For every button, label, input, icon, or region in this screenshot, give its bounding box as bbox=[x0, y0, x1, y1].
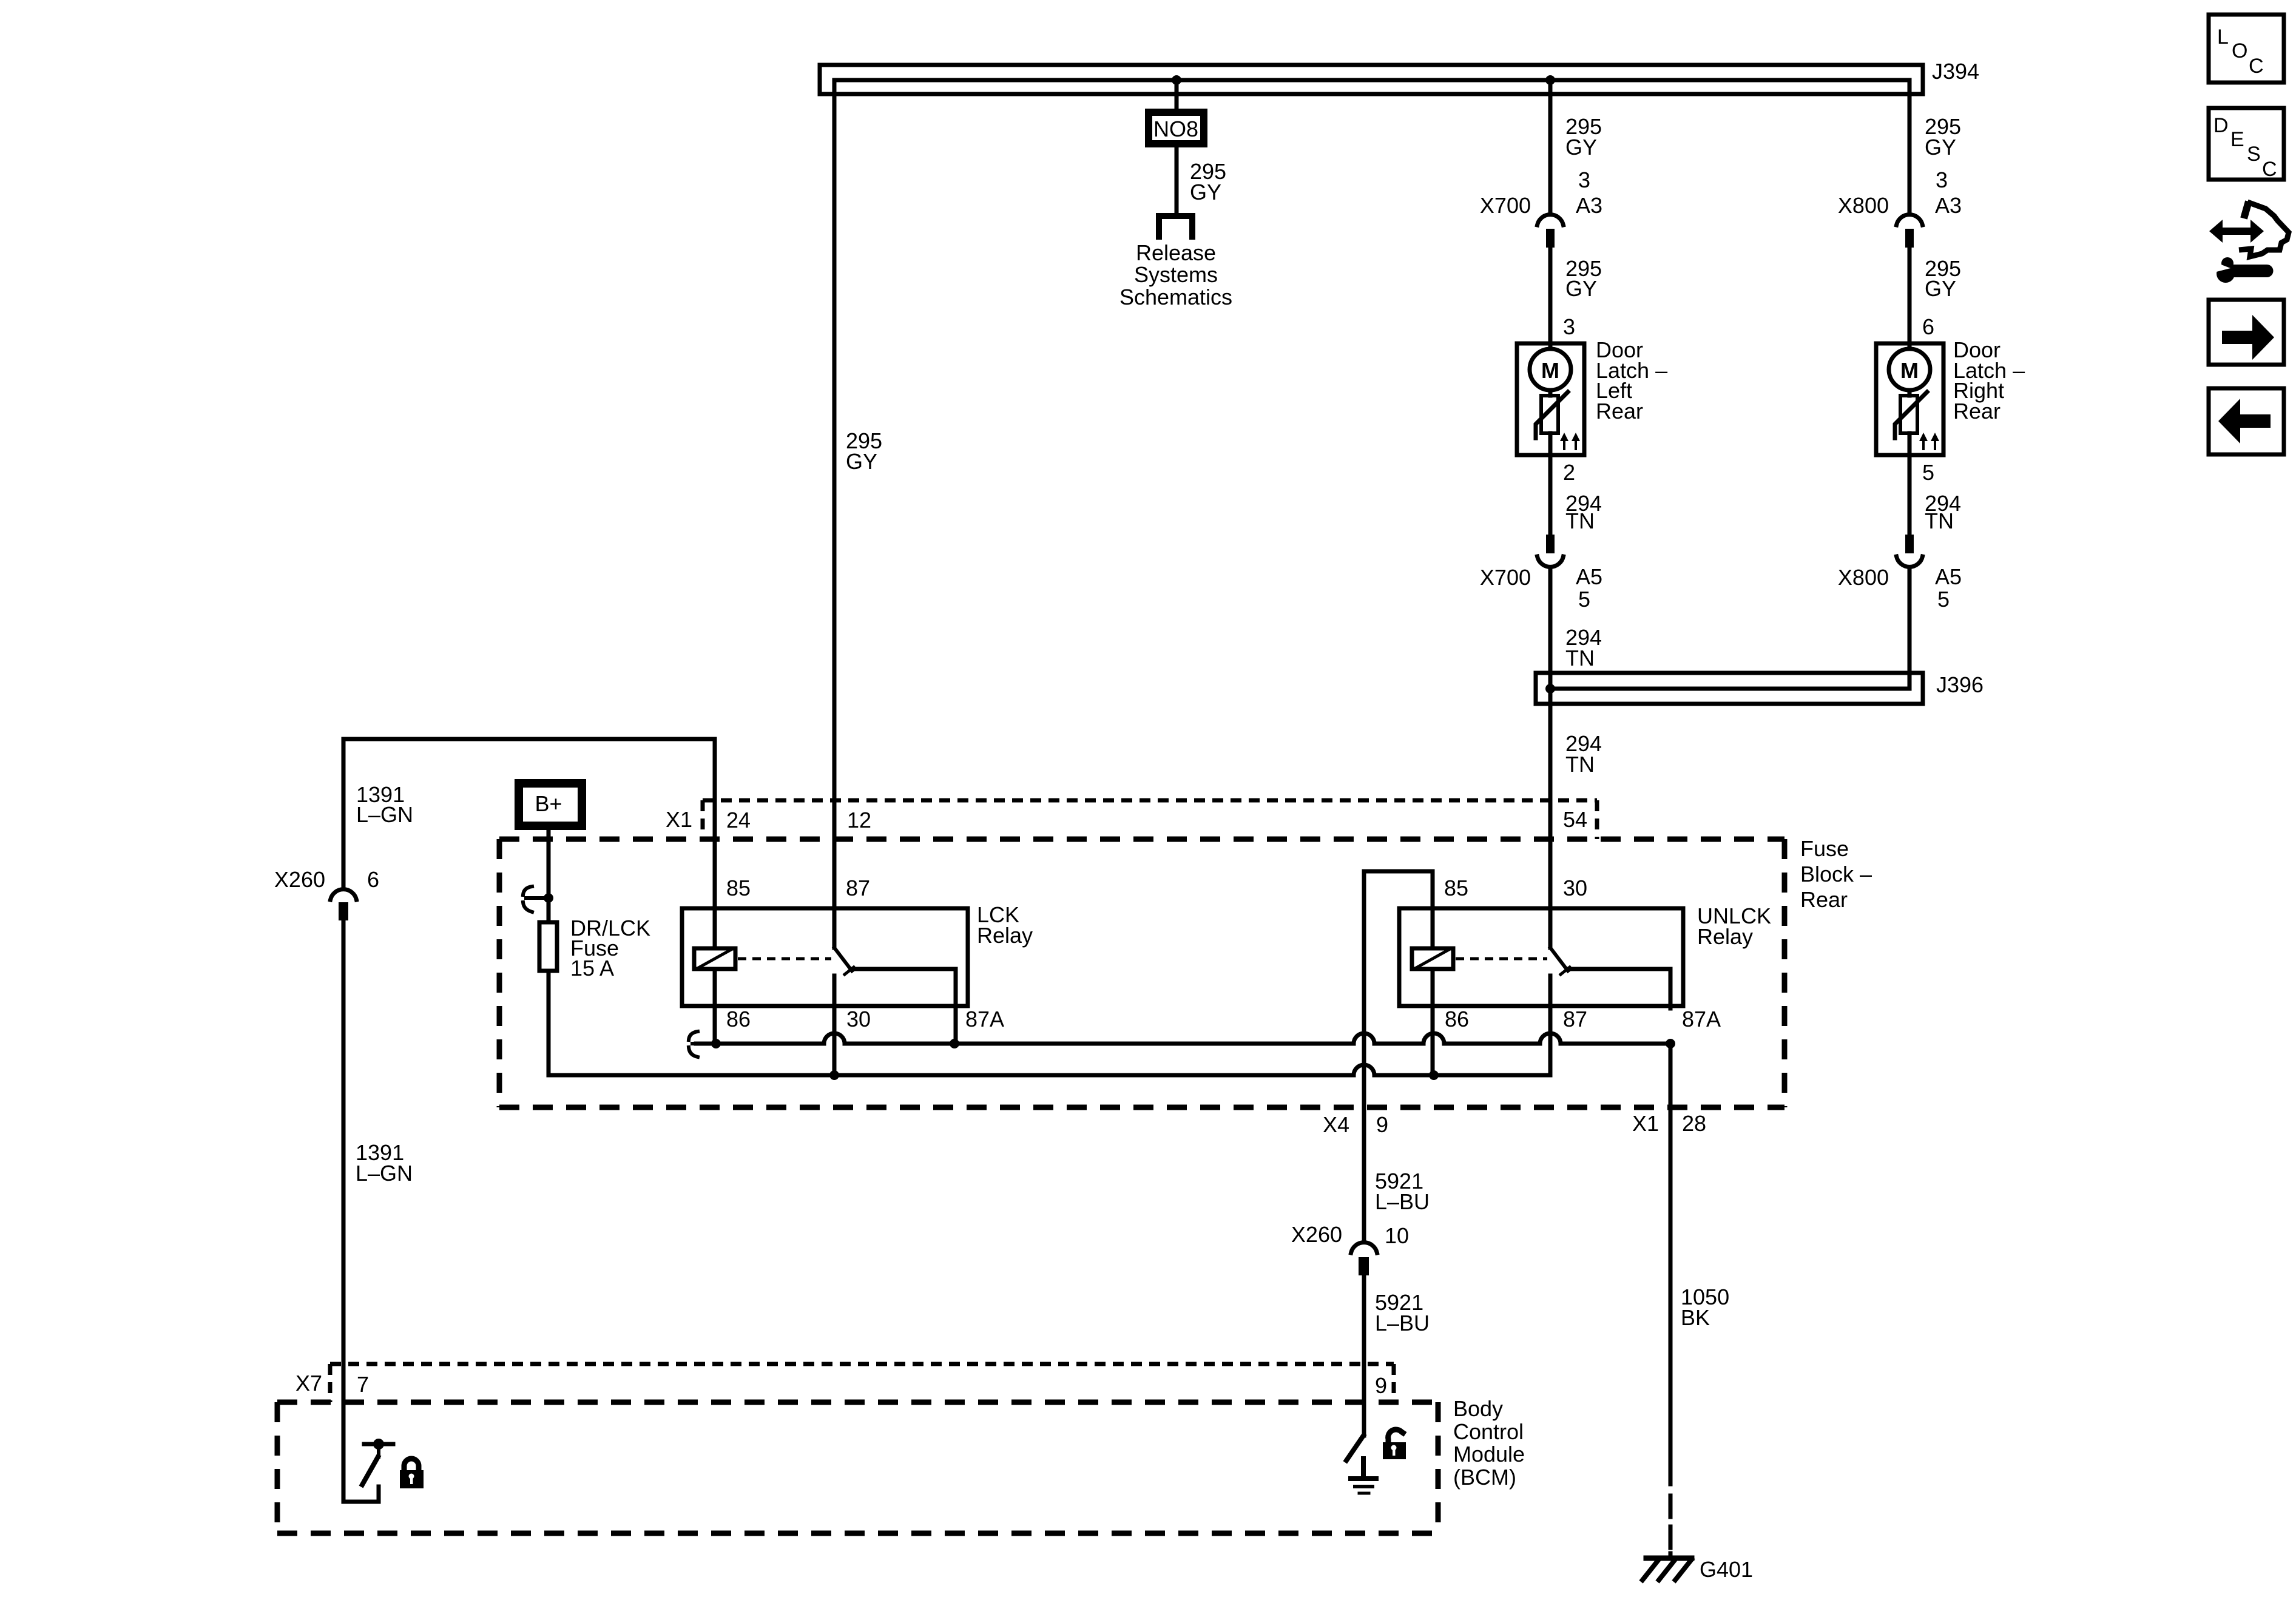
svg-text:NO8: NO8 bbox=[1153, 116, 1198, 141]
relay coil LCK bbox=[713, 906, 717, 948]
wire 295 GY X700 branch upper bbox=[1548, 80, 1553, 211]
unlock switch fixed contact stub bbox=[1361, 1459, 1366, 1476]
wire rail 86/87A (rail 1) with crossover hops bbox=[696, 1033, 1670, 1044]
double up arrows (left latch) bbox=[1560, 433, 1568, 450]
svg-text:B+: B+ bbox=[535, 791, 562, 816]
wire 5921 L-BU from UNLCK 85 down through X4:9 bbox=[1362, 871, 1366, 1240]
svg-text:2: 2 bbox=[1563, 460, 1575, 485]
node rail2 at LCK 30 bbox=[829, 1070, 839, 1080]
actuator symbol (right latch) bbox=[1900, 396, 1917, 433]
svg-text:TN: TN bbox=[1565, 752, 1595, 777]
node rail1 at LCK 87A bbox=[950, 1039, 959, 1048]
svg-text:TN: TN bbox=[1565, 508, 1595, 533]
svg-text:X260: X260 bbox=[1291, 1222, 1342, 1247]
wire from B+ to fuse bbox=[547, 828, 551, 922]
connector row X1 band (fuse block top) bbox=[703, 798, 1597, 803]
node J396 junction bbox=[1545, 684, 1555, 694]
clip symbol at fuse bbox=[523, 886, 545, 912]
relay coil UNLCK bbox=[1431, 906, 1435, 948]
wire 1050 BK from UNLCK 87A down through X1:28 bbox=[1669, 1044, 1673, 1484]
wire to pin 2 (left latch) bbox=[1548, 433, 1553, 535]
relay switch UNLCK: 87 stub down bbox=[1548, 976, 1553, 1075]
svg-text:86: 86 bbox=[1445, 1007, 1469, 1031]
wire 1391 L-GN down to BCM bbox=[342, 920, 346, 1502]
double up arrows (right latch) bbox=[1919, 433, 1928, 450]
fuse DR/LCK 15 A bbox=[539, 922, 557, 971]
svg-text:9: 9 bbox=[1375, 1373, 1387, 1398]
node rail2 at UNLCK 86 bbox=[1429, 1070, 1439, 1080]
connector X800 A5 symbol bbox=[1905, 535, 1914, 553]
svg-text:A3: A3 bbox=[1935, 193, 1962, 218]
svg-text:E: E bbox=[2230, 128, 2244, 151]
svg-text:30: 30 bbox=[1563, 876, 1587, 900]
svg-text:X1: X1 bbox=[1632, 1111, 1659, 1136]
svg-text:O: O bbox=[2232, 39, 2247, 62]
wire 295 GY into door latch right bbox=[1908, 248, 1912, 342]
wire 295 GY left drop from J394 to fuse block pin 12 bbox=[832, 80, 837, 906]
relay box LCK Relay bbox=[682, 908, 968, 1006]
wire fuse output rail (rail 2) with crossover hop bbox=[549, 1008, 1550, 1075]
svg-text:X7: X7 bbox=[295, 1371, 322, 1396]
wire 295 GY below NO8 bbox=[1175, 146, 1179, 213]
svg-text:6: 6 bbox=[367, 867, 379, 892]
connector X800 A3 symbol bbox=[1897, 215, 1923, 225]
fork symbol to Release Systems Schematics bbox=[1159, 216, 1192, 237]
splice pack J396 outer box bbox=[1536, 673, 1923, 704]
svg-text:D: D bbox=[2213, 114, 2229, 137]
component box Body Control Module BCM (dashed) bbox=[277, 1400, 1438, 1405]
svg-text:15 A: 15 A bbox=[570, 956, 614, 981]
svg-text:S: S bbox=[2247, 143, 2261, 166]
svg-text:Release: Release bbox=[1136, 240, 1216, 265]
svg-text:A3: A3 bbox=[1576, 193, 1602, 218]
svg-text:TN: TN bbox=[1925, 508, 1954, 533]
wire 294 TN from X700 A5 through J396 down to fuse block bbox=[1548, 567, 1553, 906]
svg-text:GY: GY bbox=[1925, 276, 1956, 301]
relay actuation dashed link (UNLCK) bbox=[1456, 957, 1547, 960]
relay switch LCK: 87A contact line bbox=[852, 969, 956, 1044]
relay switch LCK: 87 pivot and arm bbox=[832, 906, 837, 948]
svg-text:A5: A5 bbox=[1576, 564, 1602, 589]
motor M circle (right latch) bbox=[1908, 342, 1912, 349]
wire 1391 L-GN top-left run to X1:24 bbox=[343, 739, 715, 906]
connector X260 pin 10 symbol bbox=[1351, 1243, 1377, 1253]
svg-text:3: 3 bbox=[1563, 314, 1575, 339]
svg-text:X800: X800 bbox=[1838, 565, 1889, 590]
wire 295 GY X800 branch upper bbox=[1908, 80, 1912, 211]
icon box LOC bbox=[2209, 15, 2284, 83]
wire NO8 drop from J394 bbox=[1175, 80, 1179, 112]
relay box UNLCK Relay bbox=[1399, 908, 1683, 1006]
closed padlock icon bbox=[400, 1459, 424, 1488]
node rail1 at LCK 86 bbox=[711, 1039, 721, 1048]
svg-text:87: 87 bbox=[1563, 1007, 1587, 1031]
svg-text:28: 28 bbox=[1682, 1111, 1706, 1136]
svg-text:X700: X700 bbox=[1480, 565, 1531, 590]
svg-text:Block –: Block – bbox=[1800, 862, 1872, 886]
unlock switch arm from pin 9 wire bbox=[1346, 1436, 1363, 1460]
svg-text:X800: X800 bbox=[1838, 193, 1889, 218]
svg-text:87A: 87A bbox=[1682, 1007, 1721, 1031]
BCM internal ground symbol bbox=[1351, 1476, 1376, 1481]
svg-text:Systems: Systems bbox=[1134, 262, 1218, 287]
svg-text:24: 24 bbox=[726, 808, 751, 832]
svg-text:GY: GY bbox=[1565, 276, 1597, 301]
lock switch arm bbox=[362, 1457, 378, 1485]
svg-text:Rear: Rear bbox=[1953, 399, 2001, 424]
wire dashed to G401 bbox=[1669, 1496, 1673, 1558]
svg-text:Rear: Rear bbox=[1800, 887, 1848, 912]
svg-text:Fuse: Fuse bbox=[1800, 836, 1849, 861]
svg-text:6: 6 bbox=[1922, 314, 1934, 339]
svg-text:M: M bbox=[1541, 358, 1559, 383]
node fuse top clip junction bbox=[544, 893, 553, 903]
svg-text:(BCM): (BCM) bbox=[1453, 1465, 1516, 1490]
splice pack J394 outer box bbox=[820, 65, 1923, 94]
svg-text:Body: Body bbox=[1453, 1396, 1503, 1421]
clip symbol at LCK 86 rail start bbox=[689, 1031, 712, 1057]
connector X700 A5 symbol bbox=[1546, 535, 1555, 553]
wire J394 internal bus bbox=[834, 78, 1909, 83]
svg-text:GY: GY bbox=[846, 449, 877, 474]
svg-text:TN: TN bbox=[1565, 646, 1595, 670]
svg-text:J396: J396 bbox=[1936, 672, 1984, 697]
wire 294 TN from X800 A5 into J396 bbox=[1550, 567, 1909, 689]
svg-text:86: 86 bbox=[726, 1007, 751, 1031]
svg-text:7: 7 bbox=[357, 1372, 369, 1397]
svg-text:5: 5 bbox=[1937, 587, 1950, 612]
relay actuation dashed link (LCK) bbox=[738, 957, 831, 960]
svg-text:G401: G401 bbox=[1700, 1557, 1753, 1582]
node rail1 at UNLCK 87A bbox=[1666, 1039, 1675, 1048]
svg-text:85: 85 bbox=[1444, 876, 1468, 900]
svg-text:X700: X700 bbox=[1480, 193, 1531, 218]
connector row X7 band (BCM top) bbox=[330, 1362, 1394, 1366]
component box Door Latch Right Rear bbox=[1876, 343, 1943, 455]
connector X260 pin 6 symbol bbox=[331, 890, 357, 900]
actuator symbol (left latch) bbox=[1541, 396, 1558, 433]
component box Door Latch Left Rear bbox=[1517, 343, 1584, 455]
svg-text:Relay: Relay bbox=[1697, 924, 1753, 949]
wire 295 GY into door latch left bbox=[1548, 248, 1553, 342]
svg-text:9: 9 bbox=[1376, 1112, 1388, 1137]
svg-text:30: 30 bbox=[846, 1007, 871, 1031]
svg-text:Relay: Relay bbox=[977, 923, 1033, 948]
svg-text:C: C bbox=[2262, 158, 2277, 181]
svg-text:X1: X1 bbox=[666, 807, 692, 832]
wire 5921 L-BU to BCM pin 9 bbox=[1362, 1274, 1366, 1436]
svg-text:5: 5 bbox=[1922, 460, 1934, 485]
svg-text:10: 10 bbox=[1385, 1223, 1409, 1248]
icon box DESC bbox=[2209, 108, 2284, 181]
svg-text:12: 12 bbox=[847, 808, 871, 832]
svg-text:C: C bbox=[2249, 55, 2264, 78]
component box Fuse Block - Rear (dashed) bbox=[499, 837, 1784, 842]
relay switch UNLCK: 30 pivot and arm bbox=[1548, 906, 1553, 948]
svg-text:L–BU: L–BU bbox=[1375, 1311, 1430, 1335]
svg-text:Rear: Rear bbox=[1596, 399, 1643, 424]
wire to pin 5 (right latch) bbox=[1908, 433, 1912, 535]
open padlock icon bbox=[1383, 1430, 1406, 1459]
svg-text:X4: X4 bbox=[1323, 1112, 1349, 1137]
icon box arrow left bbox=[2209, 388, 2284, 454]
svg-text:J394: J394 bbox=[1932, 59, 1979, 84]
svg-text:L: L bbox=[2217, 25, 2229, 49]
svg-text:X260: X260 bbox=[274, 867, 325, 892]
svg-text:L–BU: L–BU bbox=[1375, 1189, 1430, 1214]
lock switch pivot bar and dot bbox=[364, 1442, 393, 1447]
wire 5921 jumper to UNLCK 85 bbox=[1364, 871, 1433, 906]
relay switch LCK: 30 stub down bbox=[832, 976, 837, 1075]
svg-text:M: M bbox=[1900, 358, 1919, 383]
svg-text:BK: BK bbox=[1681, 1305, 1710, 1330]
svg-text:GY: GY bbox=[1925, 135, 1956, 160]
battery feed B+ box bbox=[519, 783, 582, 826]
svg-text:87A: 87A bbox=[965, 1007, 1004, 1031]
node J394 tap to NO8 bbox=[1172, 75, 1181, 85]
svg-text:GY: GY bbox=[1190, 180, 1221, 204]
icon part locator (panel outline, double arrow, wrench) bbox=[2209, 201, 2289, 283]
svg-text:85: 85 bbox=[726, 876, 751, 900]
svg-text:L–GN: L–GN bbox=[356, 1161, 413, 1186]
wire fuse output down bbox=[547, 971, 551, 1075]
node J394 tap to X700 bbox=[1545, 75, 1555, 85]
svg-text:54: 54 bbox=[1563, 807, 1587, 832]
motor M circle (left latch) bbox=[1548, 342, 1553, 349]
svg-text:L–GN: L–GN bbox=[356, 802, 413, 827]
svg-text:5: 5 bbox=[1578, 587, 1590, 612]
ground G401 symbol bbox=[1646, 1556, 1692, 1561]
connector box NO8 bbox=[1149, 112, 1204, 144]
svg-text:3: 3 bbox=[1578, 167, 1590, 192]
relay switch UNLCK: 87A contact line bbox=[1568, 969, 1670, 1008]
svg-text:3: 3 bbox=[1936, 167, 1948, 192]
svg-text:87: 87 bbox=[846, 876, 870, 900]
connector X700 A3 symbol bbox=[1538, 215, 1564, 225]
svg-text:A5: A5 bbox=[1935, 564, 1962, 589]
icon box arrow right bbox=[2209, 300, 2284, 365]
lock switch fixed contact (J hook) bbox=[343, 1487, 379, 1502]
wire 1391 L-GN down to X260:6 bbox=[342, 739, 346, 888]
svg-text:Schematics: Schematics bbox=[1119, 285, 1232, 309]
svg-text:GY: GY bbox=[1565, 135, 1597, 160]
svg-text:Control: Control bbox=[1453, 1419, 1524, 1444]
svg-text:Module: Module bbox=[1453, 1442, 1525, 1467]
